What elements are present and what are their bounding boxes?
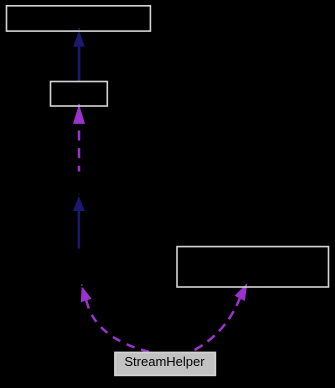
collaboration arrow (dashed curve, StreamHelper -> hidden node D, left) bbox=[81, 285, 149, 352]
collaboration arrow (dashed curve, StreamHelper -> right box) bbox=[190, 283, 247, 352]
hidden node C bottom border (black, overlays arrow tip) bbox=[55, 195, 105, 197]
inheritance arrow (solid, hidden node D -> hidden node C) bbox=[73, 194, 85, 248]
inheritance arrow (solid, class B -> class A top box) bbox=[73, 28, 85, 82]
svg-text:StreamHelper: StreamHelper bbox=[124, 354, 205, 369]
StreamHelper node (grey filled, light border) bbox=[115, 352, 215, 375]
class box B (second, empty/transparent) bbox=[51, 82, 108, 107]
class box E (right, empty/transparent, two-line) bbox=[177, 247, 329, 287]
usage arrow (dashed, hidden node C -> class B) bbox=[73, 104, 85, 172]
hidden node D bottom border (black, overlays arrow tip) bbox=[55, 286, 110, 288]
class box A (top, empty/transparent) bbox=[7, 6, 151, 31]
